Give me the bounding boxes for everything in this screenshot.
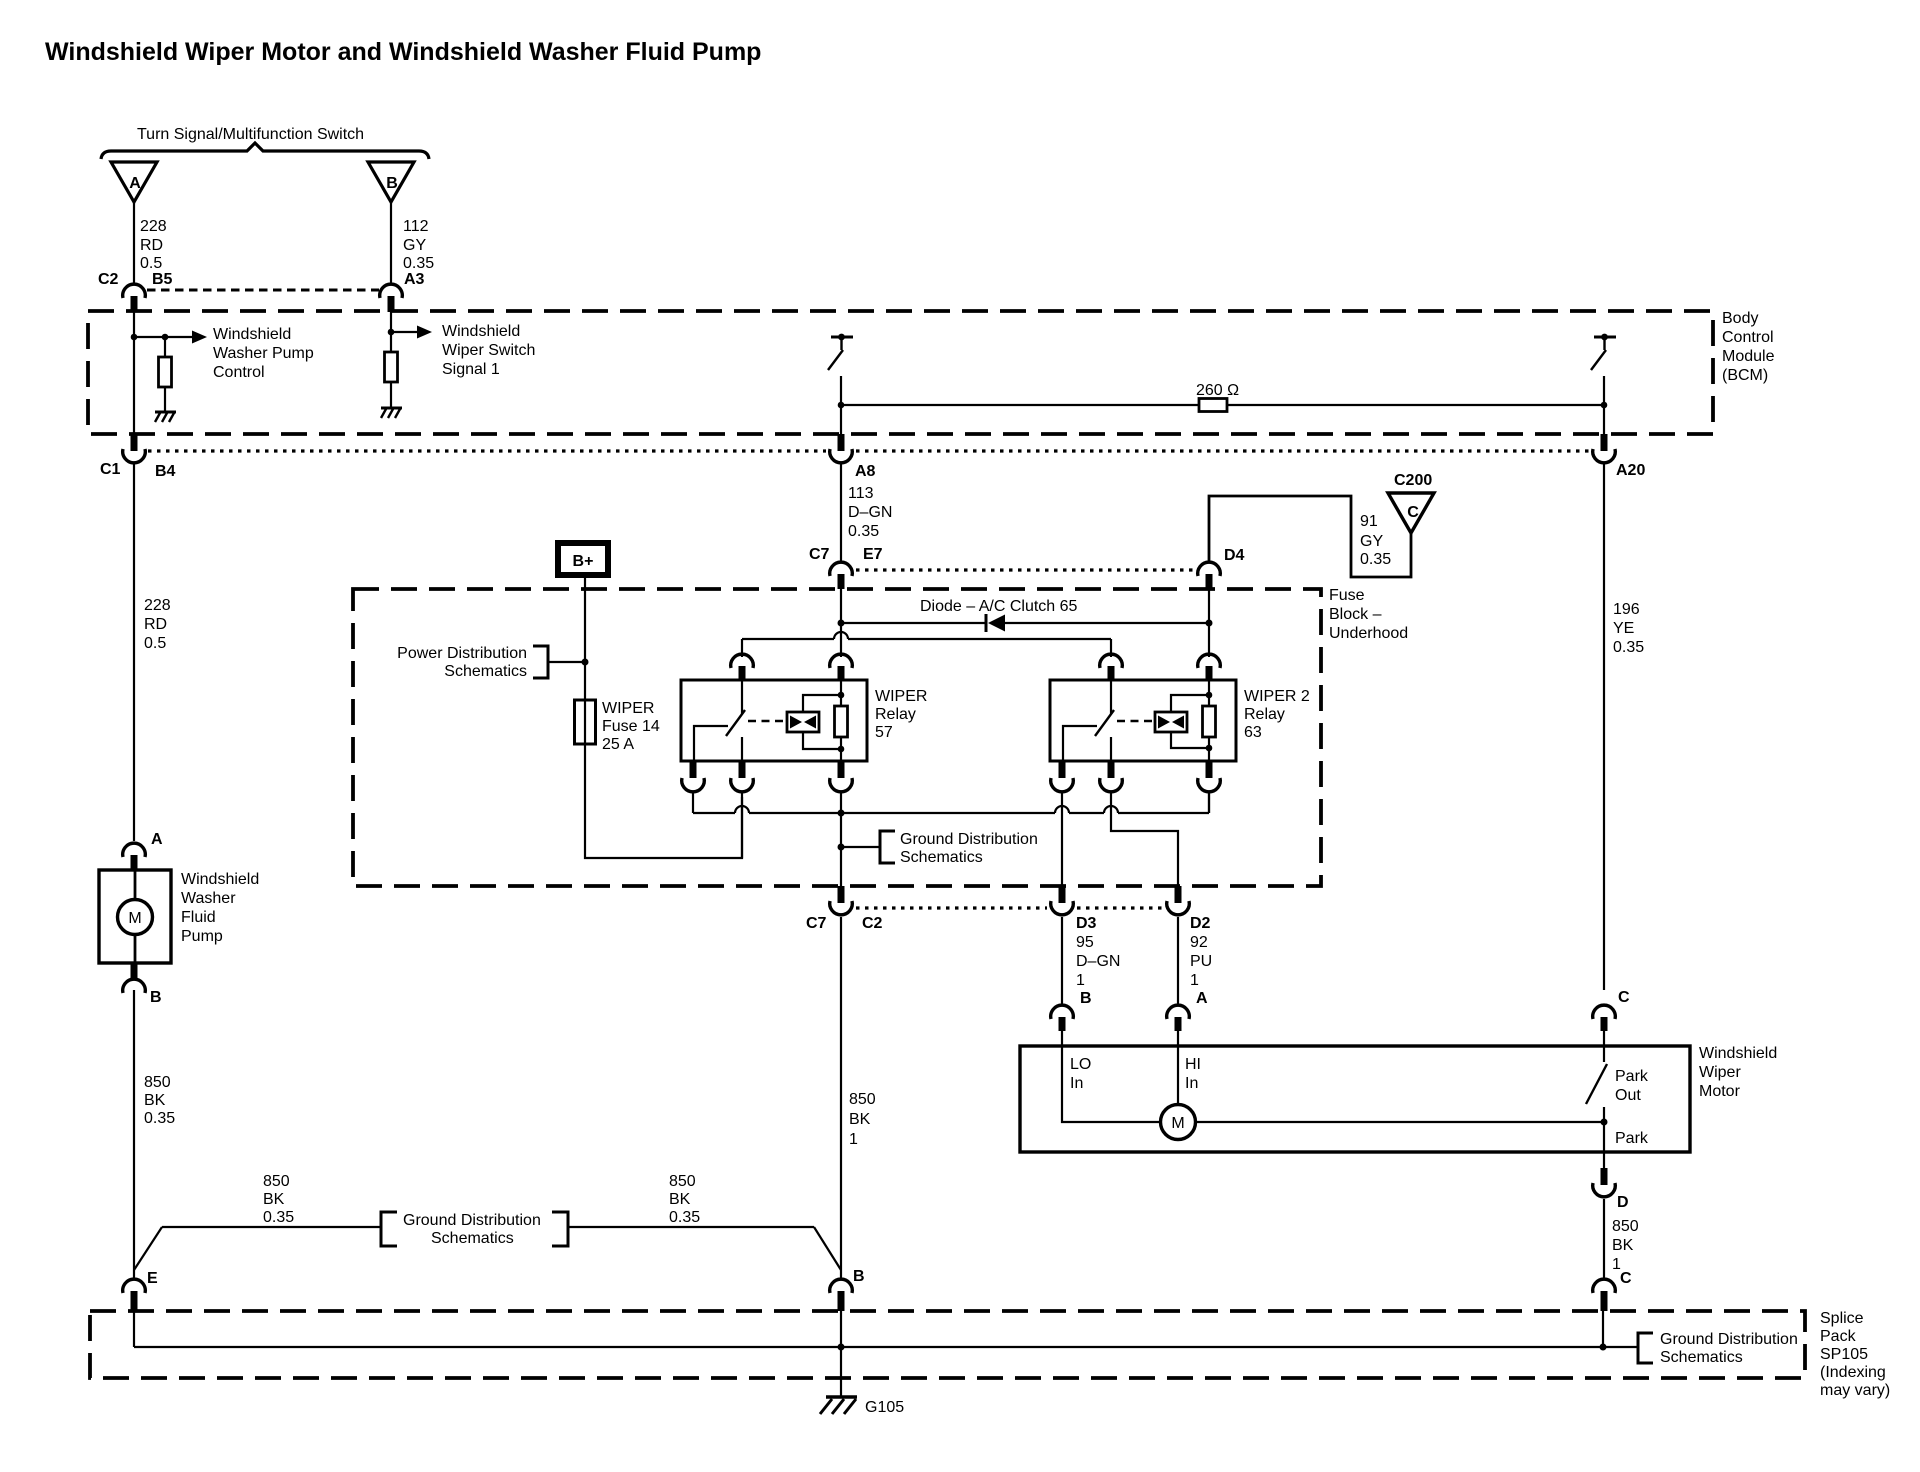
label WIPER Fuse 14 25 A xyxy=(602,700,660,753)
label C7 (fuse block bottom) xyxy=(806,915,827,932)
svg-text:A8: A8 xyxy=(855,463,876,480)
node: junction switch/resistor line left xyxy=(838,402,845,409)
diode A/C Clutch 65 xyxy=(841,614,1209,632)
svg-text:C: C xyxy=(1620,1270,1632,1287)
svg-text:A: A xyxy=(151,831,163,848)
svg-text:B+: B+ xyxy=(573,553,594,570)
wire: D down to C (850 BK 1) xyxy=(1603,1199,1605,1278)
svg-text:850: 850 xyxy=(144,1074,171,1091)
svg-text:C7: C7 xyxy=(806,915,827,932)
svg-text:228: 228 xyxy=(140,218,167,235)
svg-text:C7: C7 xyxy=(809,546,830,563)
label Fuse Block - Underhood xyxy=(1329,587,1408,642)
svg-text:LO: LO xyxy=(1070,1056,1091,1073)
svg-text:92: 92 xyxy=(1190,934,1208,951)
connector C7/E7 cup xyxy=(830,562,853,576)
label D2 92 PU 1 xyxy=(1190,915,1212,989)
node: splice junction center xyxy=(838,1344,845,1351)
wire: A8 to C7 (113 D-GN) xyxy=(840,464,842,561)
svg-text:196: 196 xyxy=(1613,601,1640,618)
washer pump motor M xyxy=(118,870,153,963)
label C (splice side) xyxy=(1620,1270,1632,1287)
relay2 top-left cup (switch feed) xyxy=(1100,654,1123,668)
node: junction at pull-down resistor xyxy=(162,334,169,341)
connector A20 pin xyxy=(1601,434,1608,451)
svg-text:BK: BK xyxy=(669,1191,691,1208)
connector C cup (splice side) xyxy=(1593,1279,1616,1293)
svg-text:Fuse: Fuse xyxy=(1329,587,1365,604)
connector C7/C2 cup xyxy=(830,901,853,915)
node: relay1 coil top junction xyxy=(838,692,845,699)
wire: ground distribution link left diagonal xyxy=(134,1227,162,1270)
svg-text:WIPER 2: WIPER 2 xyxy=(1244,688,1310,705)
svg-text:260 Ω: 260 Ω xyxy=(1196,382,1239,399)
connector motor B pin xyxy=(1059,1017,1066,1046)
svg-text:A: A xyxy=(1196,990,1208,1007)
svg-text:0.35: 0.35 xyxy=(669,1209,700,1226)
svg-text:Washer Pump: Washer Pump xyxy=(213,345,314,362)
wire: resistor to ground xyxy=(164,387,166,411)
label C2 xyxy=(862,915,883,932)
connector A20 cup xyxy=(1593,449,1616,463)
Body Control Module (BCM) dashed box xyxy=(88,311,1713,434)
connector D3 pin xyxy=(1059,886,1066,903)
svg-text:PU: PU xyxy=(1190,953,1212,970)
label Windshield Washer Fluid Pump xyxy=(181,871,259,945)
svg-text:63: 63 xyxy=(1244,724,1262,741)
svg-text:Signal 1: Signal 1 xyxy=(442,361,500,378)
connector C1/B4 cup xyxy=(123,449,146,463)
wire: relay1 common down to bus xyxy=(692,792,694,813)
label C1 xyxy=(100,461,121,478)
svg-text:B: B xyxy=(386,175,398,192)
svg-text:B: B xyxy=(853,1268,865,1285)
svg-text:Motor: Motor xyxy=(1699,1083,1741,1100)
wire: B pin into splice bus xyxy=(840,1311,842,1347)
label Park xyxy=(1615,1130,1649,1147)
wire: triangle A down to C2 connector xyxy=(133,202,135,284)
relay2 switched output stub xyxy=(1110,737,1112,761)
svg-text:Underhood: Underhood xyxy=(1329,625,1408,642)
svg-text:may vary): may vary) xyxy=(1820,1382,1890,1399)
svg-text:E: E xyxy=(147,1270,158,1287)
label A (motor) xyxy=(1196,990,1208,1007)
wire: switch to A20 pin xyxy=(1603,376,1605,434)
relay2 bottom-mid pin xyxy=(1108,761,1115,778)
wire: B+ down to fuse xyxy=(584,578,586,700)
relay1 bottom-left pin xyxy=(690,761,697,778)
svg-text:0.35: 0.35 xyxy=(263,1209,294,1226)
svg-text:Body: Body xyxy=(1722,310,1758,327)
connector C2/B5 cup xyxy=(123,284,146,298)
svg-text:M: M xyxy=(128,910,141,927)
label A8 xyxy=(855,463,876,480)
label HI In xyxy=(1185,1056,1201,1092)
relay WIPER 2 Relay 63 box xyxy=(1050,680,1236,761)
Fuse Block - Underhood dashed box xyxy=(353,589,1321,886)
B+ battery feed box xyxy=(558,543,608,575)
node: relay1 coil bottom junction xyxy=(838,746,845,753)
svg-text:B: B xyxy=(1080,990,1092,1007)
node: junction power distribution tap xyxy=(582,659,589,666)
wire: LO input down and across xyxy=(1062,1046,1161,1122)
wire: D4 up and over to C200 (91 GY) xyxy=(1209,496,1411,577)
wire: relay1 NO contact to relay2 common (top link) xyxy=(742,632,1111,657)
connector D4 pin xyxy=(1206,574,1213,589)
connector motor B cup xyxy=(1051,1005,1074,1019)
svg-text:C: C xyxy=(1618,989,1630,1006)
connector motor A pin xyxy=(1175,1017,1182,1046)
svg-text:B: B xyxy=(150,989,162,1006)
wire: relay1 coil bottom down to C2 pin xyxy=(840,792,842,886)
node: splice junction right xyxy=(1600,1344,1607,1351)
svg-text:Fluid: Fluid xyxy=(181,909,216,926)
relay2 common wire xyxy=(1063,726,1097,761)
node: diode junction left xyxy=(838,620,845,627)
svg-text:C1: C1 xyxy=(100,461,121,478)
arrow: windshield wiper switch signal 1 xyxy=(391,326,432,339)
fuse WIPER Fuse 14 25 A xyxy=(575,700,596,744)
svg-text:Windshield: Windshield xyxy=(213,326,291,343)
wire: relay2 switched output jog to D2 pin xyxy=(1111,792,1178,886)
svg-text:113: 113 xyxy=(848,485,874,502)
svg-text:Turn Signal/Multifunction Swit: Turn Signal/Multifunction Switch xyxy=(137,126,364,143)
dotted harness line C2 to D2 xyxy=(856,906,1163,909)
svg-text:Park: Park xyxy=(1615,1130,1649,1147)
svg-text:GY: GY xyxy=(1360,533,1383,550)
node: relay2 coil bottom junction xyxy=(1206,745,1213,752)
label B (pump) xyxy=(150,989,162,1006)
svg-text:(Indexing: (Indexing xyxy=(1820,1364,1886,1381)
wire: pump B down to splice E (850 BK) xyxy=(133,990,135,1278)
connector E pin xyxy=(131,1291,138,1311)
connector D pin xyxy=(1601,1168,1608,1185)
wire label 228 RD 0.5 (upper) xyxy=(140,218,167,272)
relay WIPER Relay 57 box xyxy=(681,680,867,761)
relay1 coil parallel loop xyxy=(803,695,841,749)
wire label 91 GY 0.35 xyxy=(1360,513,1391,568)
svg-text:D–GN: D–GN xyxy=(848,504,892,521)
wire: C pin into splice bus xyxy=(1602,1311,1604,1347)
svg-text:1: 1 xyxy=(1190,972,1199,989)
svg-text:Windshield Wiper Motor and Win: Windshield Wiper Motor and Windshield Wa… xyxy=(45,38,761,66)
wire label 850 BK 0.35 (left) xyxy=(144,1074,175,1127)
svg-text:Washer: Washer xyxy=(181,890,236,907)
svg-text:YE: YE xyxy=(1613,620,1634,637)
relay1 bottom-mid pin xyxy=(739,761,746,778)
node: junction at wiper switch signal arrow xyxy=(388,329,395,336)
relay2 bottom-left cup xyxy=(1051,778,1074,792)
label D xyxy=(1617,1194,1629,1211)
wiper motor M xyxy=(1161,1105,1196,1140)
label A3 xyxy=(404,271,425,288)
connector triangle B (turn signal switch) xyxy=(368,162,414,202)
label D3 95 D-GN 1 xyxy=(1076,915,1120,989)
relay2 top-right cup (coil top) xyxy=(1198,654,1221,668)
connector A3 pin xyxy=(388,296,395,312)
svg-text:In: In xyxy=(1185,1075,1198,1092)
relay2 coil parallel loop xyxy=(1171,695,1209,748)
svg-text:WIPER: WIPER xyxy=(875,688,927,705)
relay1 resistor line segments xyxy=(840,681,842,761)
label Power Distribution Schematics with bracket xyxy=(397,645,585,680)
svg-text:In: In xyxy=(1070,1075,1083,1092)
label Park Out xyxy=(1615,1068,1649,1104)
wire: motor to park contact xyxy=(1196,1121,1605,1123)
svg-text:(BCM): (BCM) xyxy=(1722,367,1768,384)
relay2 coil link dashed xyxy=(1117,720,1155,723)
wire: ground distribution link left segment (850 BK 0.35) xyxy=(162,1226,381,1228)
svg-text:A: A xyxy=(129,175,141,192)
resistor 260 ohm xyxy=(1196,382,1239,412)
ground (BCM internal, wiper switch signal) xyxy=(381,408,402,418)
connector B cup (splice) xyxy=(830,1279,853,1293)
svg-text:BK: BK xyxy=(1612,1237,1634,1254)
turn signal/multifunction switch group brace xyxy=(101,143,429,159)
label B (motor) xyxy=(1080,990,1092,1007)
relay1 bottom-mid cup xyxy=(731,778,754,792)
svg-text:Schematics: Schematics xyxy=(1660,1349,1743,1366)
label LO In xyxy=(1070,1056,1091,1092)
svg-text:Ground Distribution: Ground Distribution xyxy=(403,1212,541,1229)
label Windshield Wiper Motor xyxy=(1699,1045,1777,1100)
connector D3 cup xyxy=(1051,901,1074,915)
wire label 850 BK 0.35 (bottom right) xyxy=(669,1173,700,1226)
svg-text:Ground Distribution: Ground Distribution xyxy=(1660,1331,1798,1348)
connector D cup xyxy=(1593,1183,1616,1197)
svg-text:25 A: 25 A xyxy=(602,736,634,753)
connector C7/E7 pin xyxy=(838,574,845,589)
svg-text:Wiper: Wiper xyxy=(1699,1064,1741,1081)
connector motor C pin xyxy=(1601,1017,1608,1046)
svg-text:95: 95 xyxy=(1076,934,1094,951)
label Windshield Wiper Switch Signal 1 xyxy=(442,323,535,378)
bus: relay commons link xyxy=(693,792,1209,813)
wire: C2 down to splice B (850 BK 1) xyxy=(840,917,842,1278)
wire: ground distribution link right diagonal xyxy=(814,1227,841,1270)
node: junction switch/resistor line right xyxy=(1601,402,1608,409)
label E7 xyxy=(863,546,883,563)
connector B pin (splice) xyxy=(838,1291,845,1311)
svg-text:SP105: SP105 xyxy=(1820,1346,1868,1363)
svg-text:Control: Control xyxy=(213,364,265,381)
relay2 bottom-right pin xyxy=(1206,761,1213,778)
svg-text:1: 1 xyxy=(1076,972,1085,989)
label WIPER Relay 57 xyxy=(875,688,927,741)
relay1 top-left pin xyxy=(739,666,746,681)
wire: relay2 coil bottom to bus xyxy=(1208,792,1210,813)
connector D2 cup xyxy=(1167,901,1190,915)
relay1 top-right cup (coil top) xyxy=(830,654,853,668)
wire: BCM internal from A3 pin down xyxy=(390,311,392,352)
svg-text:Windshield: Windshield xyxy=(442,323,520,340)
windshield washer fluid pump box xyxy=(99,870,171,963)
svg-text:Module: Module xyxy=(1722,348,1775,365)
svg-text:850: 850 xyxy=(1612,1218,1639,1235)
relay2 switch blade xyxy=(1095,710,1114,736)
svg-text:WIPER: WIPER xyxy=(602,700,654,717)
svg-text:Relay: Relay xyxy=(1244,706,1285,723)
relay1 coil link dashed xyxy=(748,720,787,723)
dashed connector line B5 to A3 xyxy=(147,289,379,292)
relay2 bottom-right cup xyxy=(1198,778,1221,792)
svg-text:D3: D3 xyxy=(1076,915,1097,932)
connector C1/B4 pin xyxy=(131,434,138,451)
connector C7/C2 pin xyxy=(838,886,845,903)
svg-text:BK: BK xyxy=(263,1191,285,1208)
label E xyxy=(147,1270,158,1287)
wire: 260 ohm resistor line left segment xyxy=(841,404,1199,406)
wire: 260 ohm resistor line right segment xyxy=(1227,404,1604,406)
svg-text:BK: BK xyxy=(849,1111,871,1128)
connector C pin (splice side) xyxy=(1601,1291,1608,1311)
label A20 xyxy=(1616,462,1645,479)
title: Windshield Wiper Motor and Windshield Washer Fluid Pump xyxy=(45,38,761,66)
svg-text:C200: C200 xyxy=(1394,472,1432,489)
wire label 112 GY 0.35 xyxy=(403,218,434,272)
wire: C7 pin down to relay1 coil top xyxy=(840,589,842,657)
svg-text:Out: Out xyxy=(1615,1087,1641,1104)
park switch xyxy=(1586,1046,1607,1122)
label C2 xyxy=(98,271,119,288)
label WIPER 2 Relay 63 xyxy=(1244,688,1310,741)
svg-text:0.5: 0.5 xyxy=(140,255,162,272)
label Ground Distribution Schematics (fuse block) with bracket xyxy=(841,831,1038,866)
connector motor A cup xyxy=(1167,1005,1190,1019)
svg-text:Ground Distribution: Ground Distribution xyxy=(900,831,1038,848)
connector motor C cup xyxy=(1593,1005,1616,1019)
svg-text:228: 228 xyxy=(144,597,171,614)
wire: resistor to ground xyxy=(390,382,392,407)
svg-text:E7: E7 xyxy=(863,546,883,563)
connector pump B cup xyxy=(123,979,146,993)
connector pump A cup xyxy=(123,843,146,857)
dotted harness line below BCM xyxy=(148,449,1589,452)
node: park junction xyxy=(1601,1119,1608,1126)
svg-text:D: D xyxy=(1617,1194,1629,1211)
svg-text:GY: GY xyxy=(403,237,426,254)
svg-text:A20: A20 xyxy=(1616,462,1645,479)
relay2 switch contact xyxy=(1110,681,1112,714)
splice bus SP105 xyxy=(134,1346,1603,1348)
wire: splice bus to ground G105 xyxy=(840,1347,842,1397)
wire: D3 down to motor B (95 D-GN) xyxy=(1061,917,1063,1004)
wire: BCM internal from B5 pin down to B4 pin xyxy=(133,311,135,434)
turn signal/multifunction switch label xyxy=(137,126,364,143)
svg-text:91: 91 xyxy=(1360,513,1378,530)
node: ground distribution tap xyxy=(838,844,845,851)
wire label 850 BK 1 (center) xyxy=(849,1091,876,1148)
svg-text:0.35: 0.35 xyxy=(1360,551,1391,568)
svg-text:Power Distribution: Power Distribution xyxy=(397,645,527,662)
relay1 common wire xyxy=(694,726,728,761)
wire label 850 BK 0.35 (bottom left) xyxy=(263,1173,294,1226)
svg-text:C2: C2 xyxy=(862,915,883,932)
svg-text:Relay: Relay xyxy=(875,706,916,723)
svg-text:0.35: 0.35 xyxy=(144,1110,175,1127)
node: bus junction on relay1 coil ground wire xyxy=(838,810,845,817)
connector pump A pin xyxy=(131,855,138,870)
connector A8 pin xyxy=(838,434,845,451)
svg-text:RD: RD xyxy=(140,237,163,254)
svg-text:Splice: Splice xyxy=(1820,1310,1864,1327)
dotted harness line C7/E7 to D4 xyxy=(856,568,1194,571)
wire: relay2 common down to D3 pin xyxy=(1061,792,1063,886)
svg-text:57: 57 xyxy=(875,724,893,741)
relay1 switch contact xyxy=(741,681,743,714)
wire: A20 down to wiper motor C (196 YE) xyxy=(1603,464,1605,990)
relay1 bottom-right cup xyxy=(830,778,853,792)
svg-text:0.35: 0.35 xyxy=(1613,639,1644,656)
svg-text:850: 850 xyxy=(263,1173,290,1190)
arrow: windshield washer pump control signal xyxy=(165,331,207,344)
connector pump B pin xyxy=(131,963,138,978)
wire: HI input down to motor xyxy=(1177,1046,1179,1105)
label C7 (fuse block top) xyxy=(809,546,830,563)
svg-text:Wiper Switch: Wiper Switch xyxy=(442,342,535,359)
svg-text:B4: B4 xyxy=(155,463,176,480)
connector triangle C (C200) xyxy=(1388,493,1434,533)
relay2 top-left pin xyxy=(1108,666,1115,681)
relay1 coil (solid state) xyxy=(787,712,819,732)
relay1 resistor xyxy=(835,706,848,737)
connector A8 cup xyxy=(830,449,853,463)
wire: switch to A8 pin xyxy=(840,376,842,434)
svg-text:112: 112 xyxy=(403,218,429,235)
label Body Control Module (BCM) xyxy=(1722,310,1775,384)
relay2 top-right pin xyxy=(1206,666,1213,681)
svg-text:Schematics: Schematics xyxy=(900,849,983,866)
label B (splice) xyxy=(853,1268,865,1285)
svg-text:Control: Control xyxy=(1722,329,1774,346)
relay2 resistor xyxy=(1203,706,1216,737)
connector D4 cup xyxy=(1198,562,1221,576)
label Splice Pack SP105 (Indexing may vary) xyxy=(1820,1310,1890,1399)
relay2 coil (solid state) xyxy=(1155,712,1187,732)
ground G105 xyxy=(820,1397,904,1416)
svg-text:C2: C2 xyxy=(98,271,119,288)
wire: fuse to wiper relay common feed xyxy=(585,744,742,858)
svg-text:Windshield: Windshield xyxy=(1699,1045,1777,1062)
label A (pump) xyxy=(151,831,163,848)
svg-text:Schematics: Schematics xyxy=(431,1230,514,1247)
node: relay2 coil top junction xyxy=(1206,692,1213,699)
connector E cup xyxy=(123,1279,146,1293)
svg-text:D–GN: D–GN xyxy=(1076,953,1120,970)
svg-text:0.5: 0.5 xyxy=(144,635,166,652)
svg-text:A3: A3 xyxy=(404,271,425,288)
connector C2/B5 pin xyxy=(131,296,138,312)
label B5 xyxy=(152,271,173,288)
svg-text:Diode – A/C Clutch 65: Diode – A/C Clutch 65 xyxy=(920,598,1078,615)
svg-text:D2: D2 xyxy=(1190,915,1211,932)
svg-text:0.35: 0.35 xyxy=(848,523,879,540)
svg-text:850: 850 xyxy=(669,1173,696,1190)
wire: E pin into splice bus xyxy=(133,1311,135,1347)
wire: B4 down to washer pump A (228 RD) xyxy=(133,464,135,841)
resistor (BCM wiper switch signal pull-down) xyxy=(385,352,398,382)
wire label 850 BK 1 (right) xyxy=(1612,1218,1639,1273)
ground (BCM internal, washer pump control) xyxy=(155,412,176,422)
wire: D4 pin down to relay2 coil top xyxy=(1208,589,1210,657)
svg-text:850: 850 xyxy=(849,1091,876,1108)
svg-text:M: M xyxy=(1171,1115,1184,1132)
wire label 196 YE 0.35 xyxy=(1613,601,1644,656)
relay1 bottom-right pin xyxy=(838,761,845,778)
label B4 xyxy=(155,463,176,480)
wire: branch to washer pump control arrow xyxy=(134,336,166,338)
switch (BCM driver, wiper on/off) xyxy=(828,334,853,370)
